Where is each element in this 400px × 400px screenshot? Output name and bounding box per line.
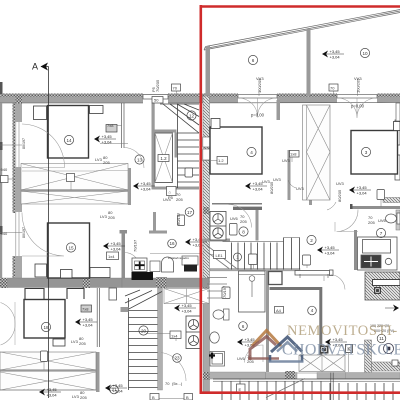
left interior wall x15-22 <box>15 103 22 122</box>
room12 double door <box>1 303 16 346</box>
dark beam above kitchen <box>233 207 262 210</box>
bathroom7 vanity <box>358 237 398 270</box>
svg-text:7x8: 7x8 <box>107 123 114 128</box>
wardrobe row between 14/15 <box>21 164 131 206</box>
svg-text:(5x...): (5x...) <box>172 381 183 386</box>
toilet bathroom7 <box>386 213 400 224</box>
right lower walls <box>365 340 372 378</box>
corridor wall x122 <box>122 103 125 148</box>
svg-text:80/197: 80/197 <box>22 227 26 238</box>
svg-text:A4: A4 <box>276 308 282 313</box>
svg-text:LV3: LV3 <box>100 214 108 219</box>
bed room15 <box>48 223 90 278</box>
svg-text:LV3: LV3 <box>72 394 80 399</box>
window frames in gaps <box>143 95 168 100</box>
bottom-left wardrobe <box>0 352 96 390</box>
corridor door top (x122) <box>124 148 144 169</box>
svg-text:UV3: UV3 <box>262 179 271 184</box>
room16 door <box>125 253 140 268</box>
plain small labels <box>71 155 387 400</box>
right edge pilasters <box>395 120 400 145</box>
extra right-edge symbols <box>374 287 381 294</box>
svg-text:LV3: LV3 <box>71 339 79 344</box>
svg-text:60/197: 60/197 <box>176 212 181 225</box>
svg-text:70: 70 <box>173 86 178 91</box>
terrace double door 1 <box>239 98 277 118</box>
fixtures room16 installation core <box>150 253 203 255</box>
svg-text:205: 205 <box>368 220 375 225</box>
WC17 walls <box>153 212 156 232</box>
bed room3 <box>351 131 398 175</box>
svg-text:LE1: LE1 <box>216 253 224 258</box>
svg-text:LV3: LV3 <box>95 157 103 162</box>
svg-text:205: 205 <box>103 160 110 165</box>
svg-text:1.2: 1.2 <box>218 158 224 163</box>
bathroom6 top wall <box>203 239 230 242</box>
corridor large arc bottom <box>161 353 186 382</box>
svg-text:CHORVATSKO.EU: CHORVATSKO.EU <box>282 342 400 359</box>
svg-text:inštalačné jadro: inštalačné jadro <box>168 256 189 260</box>
svg-text:16: 16 <box>169 241 175 246</box>
toilet bathroom6 <box>209 309 229 366</box>
kitchen counter mid <box>210 212 226 241</box>
return flight (left, horizontal treads) <box>207 278 227 299</box>
svg-text:+3,04: +3,04 <box>102 140 113 145</box>
svg-text:UV3: UV3 <box>336 181 345 186</box>
svg-text:1: 1 <box>236 255 239 260</box>
svg-text:10: 10 <box>362 51 368 56</box>
terrace double door 2 <box>338 98 377 118</box>
wall x122 room16 <box>122 231 126 279</box>
svg-text:VV3: VV3 <box>354 76 362 81</box>
svg-text:80/197: 80/197 <box>22 138 26 149</box>
svg-text:70/197: 70/197 <box>133 239 138 252</box>
svg-text:1.2: 1.2 <box>160 156 167 161</box>
svg-text:205: 205 <box>79 341 86 346</box>
svg-text:UV6: UV6 <box>378 218 387 223</box>
bed room14 <box>48 106 89 159</box>
svg-text:1x4: 1x4 <box>108 254 115 259</box>
glass balustrade diagonals <box>204 13 400 51</box>
elevator shaft walls <box>152 103 155 189</box>
svg-text:70: 70 <box>165 381 170 386</box>
svg-text:6: 6 <box>252 58 255 63</box>
bathroom6 bottom wall y372 <box>210 372 266 379</box>
svg-text:P5: P5 <box>168 195 174 200</box>
svg-text:B: B <box>186 395 189 400</box>
wall below stairs top flight <box>152 187 200 190</box>
svg-text:80/205: 80/205 <box>337 189 342 202</box>
svg-text:P5: P5 <box>151 86 156 92</box>
room14 door <box>22 124 65 168</box>
svg-text:2: 2 <box>310 238 313 243</box>
svg-text:8: 8 <box>242 229 245 234</box>
sideboard room2 <box>295 270 333 278</box>
svg-text:15: 15 <box>68 245 74 250</box>
svg-text:UV3: UV3 <box>296 186 305 191</box>
bed room12 (bottom) <box>24 300 65 339</box>
corridor wardrobe (bottom of mid corridor) <box>25 288 209 347</box>
svg-text:VV3: VV3 <box>256 76 264 81</box>
terrace left wall <box>206 46 211 96</box>
svg-text:1x4: 1x4 <box>171 334 178 339</box>
svg-text:UV3: UV3 <box>273 177 282 182</box>
svg-text:940: 940 <box>1 167 8 172</box>
svg-text:1x8: 1x8 <box>290 152 297 157</box>
vertical wall x264 <box>266 271 269 372</box>
svg-text:UV3: UV3 <box>282 158 291 163</box>
lower apartment kitchen (left, below stairs area) <box>186 316 200 349</box>
bottom-right hatch block with channel <box>365 272 400 300</box>
svg-text:UV6: UV6 <box>230 216 239 221</box>
svg-text:3: 3 <box>365 150 368 155</box>
svg-text:+3,45: +3,45 <box>102 134 113 139</box>
svg-text:B: B <box>152 395 155 400</box>
rotated door labels <box>133 76 363 298</box>
black counter in corridor19 <box>132 272 154 280</box>
svg-text:6: 6 <box>242 324 245 329</box>
svg-text:p=0,00: p=0,00 <box>251 113 265 118</box>
bath7 door <box>337 210 359 232</box>
svg-text:70/197: 70/197 <box>222 285 227 298</box>
svg-text:NEMOVITOSTI-: NEMOVITOSTI- <box>287 323 398 339</box>
tall wardrobe x303-330 <box>303 105 331 200</box>
lower-right room furniture <box>299 355 345 372</box>
room2 door lower <box>331 275 346 290</box>
bath6 door <box>245 345 264 363</box>
svg-text:23: 23 <box>174 356 180 361</box>
svg-text:4: 4 <box>250 150 253 155</box>
svg-text:p=0,00: p=0,00 <box>351 104 365 109</box>
top wall segments: solid gray with checkered top strip <box>0 94 143 97</box>
svg-text:50: 50 <box>154 98 159 103</box>
shower center bottom <box>239 271 266 312</box>
svg-text:7: 7 <box>380 231 383 236</box>
svg-text:18: 18 <box>43 325 49 330</box>
sink symbol in box <box>135 261 145 270</box>
svg-text:940: 940 <box>1 231 8 236</box>
svg-text:205: 205 <box>176 197 183 202</box>
svg-text:17: 17 <box>187 210 193 215</box>
main horizontal band y278 left <box>0 278 122 288</box>
svg-text:205: 205 <box>240 219 247 224</box>
room15 door <box>22 213 64 257</box>
svg-text:12: 12 <box>189 113 195 118</box>
svg-text:70: 70 <box>330 86 335 91</box>
svg-text:E: E <box>239 387 242 392</box>
bed room4 <box>210 127 262 174</box>
wall under mid stairs <box>210 269 300 271</box>
terrace mid wall <box>307 29 311 96</box>
svg-text:205: 205 <box>80 395 87 400</box>
svg-text:4: 4 <box>311 308 314 313</box>
door frame right of shower <box>269 272 283 285</box>
svg-text:14: 14 <box>66 138 72 143</box>
svg-text:13: 13 <box>137 157 143 162</box>
kitchen door mid <box>229 205 252 228</box>
svg-text:20: 20 <box>141 328 147 333</box>
svg-text:7x8: 7x8 <box>82 307 89 312</box>
svg-text:205: 205 <box>108 215 115 220</box>
svg-text:A: A <box>32 62 38 72</box>
svg-text:UV6: UV6 <box>237 356 246 361</box>
lower room walls <box>270 289 321 356</box>
